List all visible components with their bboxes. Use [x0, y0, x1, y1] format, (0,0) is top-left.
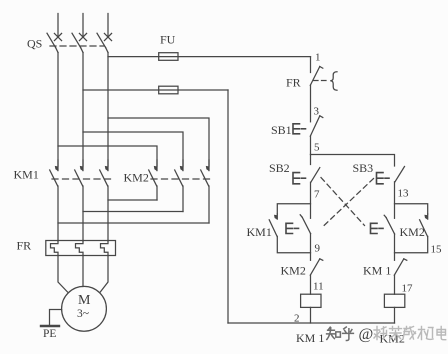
- node 3 label: [314, 106, 320, 118]
- mechanical link SB2 to its NC contact (dashed diagonal): [321, 178, 365, 226]
- contactor KM2 main contact pole 3: [201, 160, 210, 223]
- contactor KM1 main contact pole 2: [75, 160, 84, 241]
- phase line L2 arrow: [79, 33, 86, 40]
- contactor KM2 main contact pole 1: [149, 160, 158, 200]
- contactor KM1 main contact pole 1: [50, 160, 59, 241]
- wire node 5 to node 7: [310, 182, 312, 218]
- node 5 label: [314, 142, 320, 154]
- phase line L2 incoming wire: [82, 14, 84, 37]
- svg-text:FU: FU: [160, 33, 176, 47]
- svg-text:SB2: SB2: [269, 161, 290, 175]
- svg-text:KM2: KM2: [400, 225, 425, 239]
- contactor KM1 label: [14, 168, 39, 182]
- fuse FU1: [159, 53, 178, 61]
- bottom rail wire: [228, 322, 395, 324]
- pushbutton SB3 NC contact (in left branch): [300, 215, 310, 234]
- wire FR to motor terminal V: [82, 256, 84, 287]
- svg-text:3: 3: [314, 106, 320, 118]
- svg-text:FR: FR: [286, 76, 301, 90]
- svg-text:3~: 3~: [77, 308, 89, 320]
- phase line L3 arrow: [104, 33, 111, 40]
- phase line L3 incoming wire: [107, 14, 109, 37]
- wire node 5 horizontal to SB3 branch: [311, 155, 395, 167]
- svg-text:PE: PE: [43, 328, 56, 340]
- wire coil KM1 to bottom rail: [310, 307, 312, 323]
- node 9 label: [315, 243, 321, 255]
- pushbutton SB2 label: [269, 161, 290, 175]
- svg-text:11: 11: [313, 281, 324, 293]
- fuse FU2: [159, 86, 178, 94]
- wire node 9 to node 11: [310, 275, 312, 294]
- svg-text:FR: FR: [17, 239, 32, 253]
- thermal relay FR NC contact label: [286, 76, 301, 90]
- watermark zhihu logo text: [327, 327, 354, 340]
- svg-text:7: 7: [314, 189, 320, 201]
- pushbutton SB2 NO contact: [311, 155, 320, 183]
- svg-text:SB1: SB1: [271, 123, 292, 137]
- contactor KM2 linkage dashed line: [151, 178, 212, 180]
- wire from L2 to control circuit bottom rail: [83, 90, 228, 323]
- wire L3 from QS to KM1 contact: [107, 53, 109, 167]
- svg-text:KM 1: KM 1: [296, 331, 324, 345]
- wire FR to motor terminal U: [58, 256, 68, 293]
- wire L2 from QS to KM1 contact: [82, 53, 84, 167]
- pushbutton SB3 label: [353, 161, 374, 175]
- pushbutton SB3 operator: [377, 173, 393, 184]
- svg-text:KM1: KM1: [247, 225, 272, 239]
- coil KM2: [384, 294, 404, 307]
- coil KM1: [301, 294, 321, 307]
- contactor KM2 main contact pole 2: [175, 160, 184, 212]
- wire node 13 to node 15: [394, 234, 396, 260]
- svg-text:M: M: [78, 293, 91, 308]
- wire node 7 to node 9: [310, 234, 312, 261]
- svg-text:13: 13: [398, 188, 410, 200]
- contactor KM1 main contact pole 3: [100, 160, 109, 241]
- thermal relay FR NC contact: [310, 67, 323, 86]
- wire SB3 to node 13: [394, 182, 396, 219]
- coil KM1 name label: [296, 331, 324, 345]
- mechanical link SB3 to its NC contact (dashed diagonal): [324, 179, 374, 227]
- motor M: [62, 286, 107, 331]
- node 15 label: [431, 244, 443, 256]
- phase line L1 incoming wire: [57, 14, 59, 37]
- wire L1 from QS to KM1 contact: [57, 53, 59, 167]
- wire motor to PE ground: [50, 310, 62, 326]
- node 7 label: [314, 189, 320, 201]
- wire KM1 aux branch bottom: [277, 236, 310, 252]
- wire node 1 to node 3: [310, 85, 312, 122]
- thermal relay FR box: [46, 241, 116, 256]
- contactor KM2 label: [124, 171, 149, 185]
- pushbutton SB2 NC contact (in right branch): [384, 215, 394, 234]
- node 11 label: [313, 281, 324, 293]
- motor M label: [77, 293, 91, 320]
- node 2 label: [294, 313, 300, 325]
- contactor KM1 NC interlock contact: [394, 259, 407, 275]
- pushbutton SB2 operator: [293, 173, 308, 184]
- pushbutton SB2 NC operator: [371, 223, 385, 233]
- svg-text:QS: QS: [27, 37, 42, 51]
- svg-text:SB3: SB3: [353, 161, 374, 175]
- wire FR to motor terminal W: [100, 256, 108, 293]
- node 13 label: [398, 188, 410, 200]
- thermal relay FR element brace: [330, 72, 337, 90]
- contactor KM1 auxiliary NO contact: [269, 214, 277, 236]
- watermark at-name: [359, 326, 446, 343]
- wire coil KM2 to bottom rail: [394, 307, 396, 323]
- switch QS pole 3 blade: [97, 33, 108, 52]
- wire KM2 aux branch bottom: [395, 236, 428, 252]
- pushbutton SB1 operator: [293, 124, 308, 134]
- svg-text:1: 1: [315, 52, 321, 64]
- thermal relay FR label: [17, 239, 32, 253]
- contactor KM2 auxiliary NO contact label: [400, 225, 425, 239]
- node 17 label: [402, 283, 414, 295]
- contactor KM1 linkage dashed line: [52, 178, 114, 180]
- wire KM2 pole 2 output to L2 line: [83, 211, 183, 213]
- svg-text:17: 17: [402, 283, 414, 295]
- svg-text:KM 1: KM 1: [363, 264, 391, 278]
- svg-text:KM2: KM2: [281, 264, 306, 278]
- pushbutton SB3 NC operator: [286, 223, 300, 233]
- contactor KM1 auxiliary NO contact label: [247, 225, 272, 239]
- ground PE label: [43, 328, 56, 340]
- pushbutton SB3 NO contact: [395, 167, 405, 182]
- contactor KM2 NC interlock contact: [310, 259, 323, 275]
- wire KM2 pole 3 output to L1 line: [58, 222, 209, 224]
- wire control circuit node 1 vertical: [310, 57, 312, 73]
- svg-text:5: 5: [314, 142, 320, 154]
- phase line L1 arrow: [54, 33, 61, 40]
- thermal relay FR linkage dashes: [314, 80, 330, 82]
- wire feeder L1 to KM2 pole 1: [58, 146, 157, 166]
- wire feeder L2 to KM2 pole 2: [83, 132, 183, 166]
- wire node 15 to node 17: [394, 275, 396, 294]
- coil KM2 name label: [380, 332, 405, 346]
- svg-text:KM2: KM2: [124, 171, 149, 185]
- switch QS pole 2 blade: [72, 33, 83, 52]
- wire KM2 aux branch top: [395, 204, 428, 214]
- thermal relay FR heater element 2: [76, 241, 84, 256]
- node 1 label: [315, 52, 321, 64]
- thermal relay FR heater element 3: [101, 241, 109, 256]
- switch QS label: [27, 37, 42, 51]
- wire node 3 to node 5: [310, 136, 312, 154]
- fuse FU label: [160, 33, 176, 47]
- svg-text:KM1: KM1: [14, 168, 39, 182]
- contactor KM2 NC interlock label: [281, 264, 306, 278]
- wire feeder L3 to KM2 pole 3: [108, 118, 209, 166]
- switch QS pole 1 blade: [47, 33, 58, 52]
- contactor KM1 NC interlock label: [363, 264, 391, 278]
- contactor KM2 auxiliary NO contact: [420, 214, 428, 236]
- thermal relay FR heater element 1: [51, 241, 59, 256]
- pushbutton SB1 label: [271, 123, 292, 137]
- svg-text:@: @: [359, 326, 374, 343]
- wire KM1 aux branch top: [277, 204, 310, 214]
- switch QS linkage dashed line: [50, 45, 104, 47]
- wire from L3 to control circuit node 1: [108, 56, 311, 58]
- wire KM2 pole 1 output to L3 line: [108, 199, 157, 201]
- svg-text:9: 9: [315, 243, 321, 255]
- pushbutton SB1 NC contact: [310, 116, 323, 136]
- svg-text:15: 15: [431, 244, 443, 256]
- ground PE bar: [41, 325, 59, 327]
